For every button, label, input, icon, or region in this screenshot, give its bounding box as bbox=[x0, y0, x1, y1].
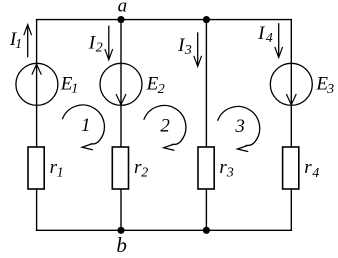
mesh loop arrow 1 bbox=[62, 105, 104, 150]
wire branch 3 bbox=[205, 20, 207, 231]
svg-text:3: 3 bbox=[184, 43, 192, 58]
svg-text:E: E bbox=[146, 74, 159, 95]
current arrow I4 bbox=[275, 23, 283, 57]
svg-text:2: 2 bbox=[158, 82, 165, 97]
EMF source E2 bbox=[100, 63, 142, 105]
svg-text:3: 3 bbox=[326, 82, 334, 97]
svg-text:2: 2 bbox=[141, 165, 148, 180]
svg-text:1: 1 bbox=[15, 37, 22, 52]
node a junction dot top branch2 bbox=[117, 16, 124, 23]
mesh loop arrow 3 bbox=[218, 106, 260, 151]
wire bottom (b rail) bbox=[36, 229, 292, 231]
EMF source E3 bbox=[270, 63, 312, 105]
svg-text:4: 4 bbox=[312, 166, 319, 181]
svg-text:3: 3 bbox=[234, 116, 245, 137]
svg-text:1: 1 bbox=[81, 115, 91, 136]
resistor r4 bbox=[283, 147, 299, 189]
EMF source E1 bbox=[16, 63, 58, 105]
resistor r1 bbox=[28, 147, 44, 189]
wire top (a rail) bbox=[36, 19, 292, 21]
current arrow I2 bbox=[105, 26, 113, 60]
current arrow I1 bbox=[24, 25, 32, 58]
svg-text:r: r bbox=[304, 157, 312, 178]
junction dot bottom branch3 bbox=[203, 227, 210, 234]
wire branch 1 (left) bbox=[36, 20, 38, 231]
mesh loop arrow 2 bbox=[144, 105, 186, 150]
node b junction dot bottom branch2 bbox=[117, 227, 124, 234]
svg-text:2: 2 bbox=[96, 41, 103, 56]
svg-text:b: b bbox=[116, 233, 127, 257]
resistor r3 bbox=[198, 147, 214, 189]
svg-text:I: I bbox=[257, 23, 266, 44]
svg-text:2: 2 bbox=[160, 115, 170, 136]
svg-text:1: 1 bbox=[71, 81, 78, 96]
resistor r2 bbox=[112, 147, 128, 189]
junction dot top branch3 bbox=[203, 16, 210, 23]
wire branch 4 (right) bbox=[290, 20, 292, 231]
svg-text:4: 4 bbox=[266, 31, 273, 46]
svg-text:a: a bbox=[118, 0, 128, 17]
wire branch 2 bbox=[120, 20, 122, 231]
svg-text:3: 3 bbox=[226, 166, 234, 181]
current arrow I3 bbox=[194, 32, 202, 66]
svg-text:1: 1 bbox=[57, 165, 64, 180]
